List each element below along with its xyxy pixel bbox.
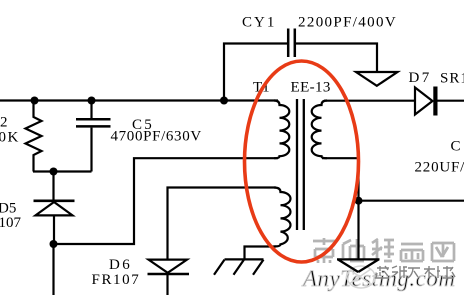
- transformer T1 primary winding: [274, 101, 289, 159]
- wire main top horizontal: [0, 99, 278, 101]
- red ellipse highlight around transformer: [245, 61, 359, 262]
- node junction CY1 tap: [220, 97, 228, 105]
- diode D5: [34, 172, 75, 245]
- watermark 嘉峪检测网: [313, 238, 454, 263]
- diode D7: [415, 87, 464, 116]
- wire secondary return down: [322, 158, 359, 258]
- wire D5 branch to bottom edge: [52, 244, 54, 295]
- transformer T1 auxiliary winding: [274, 188, 291, 247]
- ground hatched at aux: [214, 259, 264, 274]
- svg-text:4700PF/630V: 4700PF/630V: [111, 129, 202, 145]
- watermark AnyTesting.com: [301, 266, 455, 291]
- ground triangle at secondary return: [337, 259, 380, 272]
- wire secondary to D7: [324, 100, 415, 102]
- svg-text:D6: D6: [109, 257, 132, 273]
- svg-text:2200PF/400V: 2200PF/400V: [298, 15, 397, 31]
- transformer T1 core: [297, 99, 304, 230]
- diode D6: [148, 260, 190, 295]
- svg-text:C: C: [451, 139, 461, 155]
- wire primary return (dot to transformer bottom): [54, 158, 279, 244]
- node junction output return: [355, 197, 363, 205]
- resistor R2: [26, 101, 42, 172]
- wire aux return to hatched ground: [245, 247, 277, 259]
- svg-text:107: 107: [0, 215, 22, 231]
- transformer T1 secondary winding: [312, 101, 327, 159]
- svg-text:0K: 0K: [0, 130, 20, 146]
- wire R2/C5 bottom joining: [33, 170, 92, 172]
- wire output return to right edge: [359, 200, 464, 202]
- svg-text:220UF/: 220UF/: [415, 160, 464, 176]
- node junction below D5: [50, 240, 58, 248]
- capacitor CY1: [224, 29, 295, 101]
- svg-text:D7: D7: [409, 70, 432, 86]
- watermark circle mark: [347, 266, 375, 288]
- watermark 盛邦尔科技: [375, 266, 455, 278]
- svg-text:SR1: SR1: [440, 71, 464, 87]
- node junction C5 top: [88, 97, 96, 105]
- ground triangle at CY1: [356, 72, 398, 86]
- svg-text:2: 2: [0, 115, 8, 131]
- wire aux winding to D6: [168, 188, 277, 260]
- wire CY1 to ground: [296, 44, 377, 72]
- node junction D5 anode: [50, 168, 58, 176]
- svg-text:EE-13: EE-13: [291, 80, 331, 96]
- node junction R2 top: [31, 97, 39, 105]
- svg-text:CY1: CY1: [242, 15, 276, 31]
- svg-text:FR107: FR107: [92, 272, 141, 288]
- capacitor C5: [76, 101, 111, 172]
